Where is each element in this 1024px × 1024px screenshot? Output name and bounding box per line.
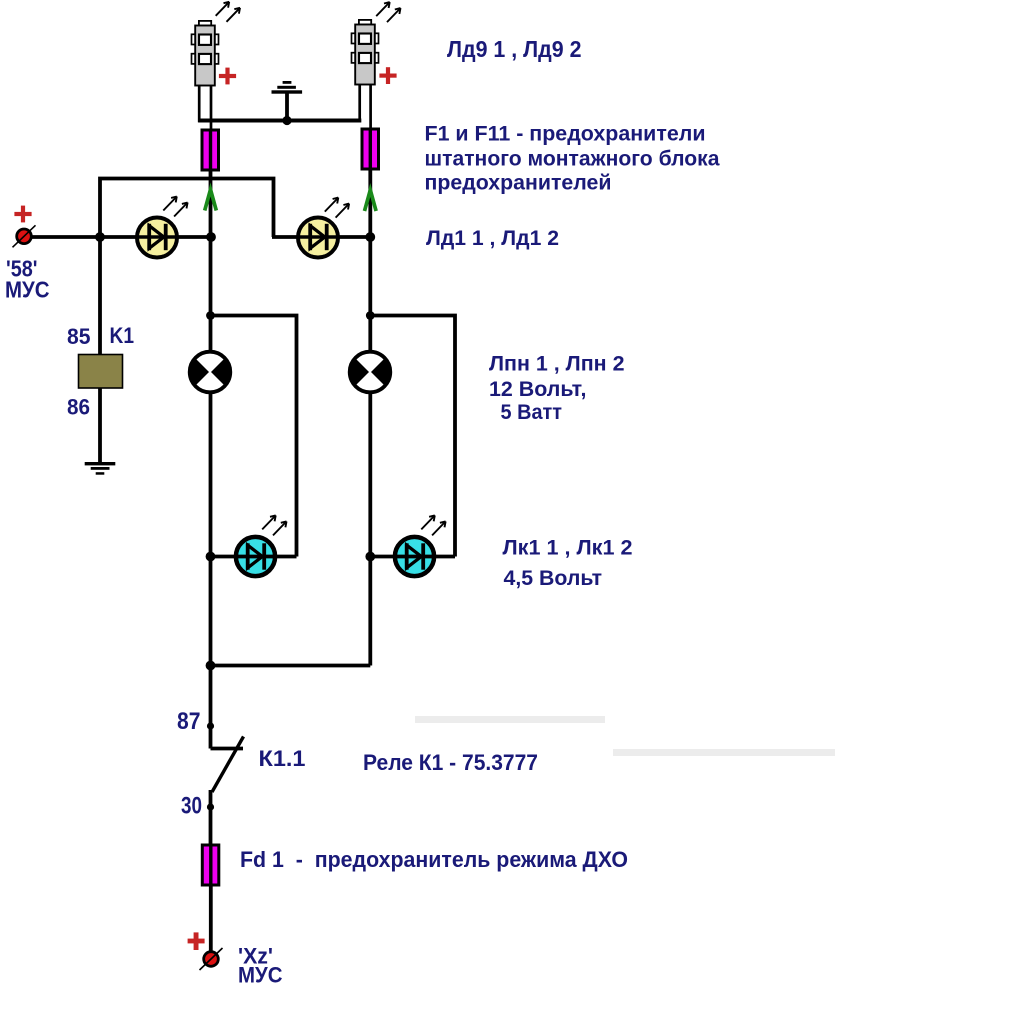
svg-text:5 Ватт: 5 Ватт xyxy=(501,400,563,424)
svg-text:Fd 1 - предохранитель режима: Fd 1 - предохранитель режима ДХО xyxy=(240,847,628,872)
svg-text:Лд1 1 , Лд1 2: Лд1 1 , Лд1 2 xyxy=(426,227,559,250)
svg-text:К1.1: К1.1 xyxy=(259,746,306,771)
svg-text:87: 87 xyxy=(177,708,201,735)
svg-text:K1: K1 xyxy=(110,323,135,348)
svg-text:Реле К1 - 75.3777: Реле К1 - 75.3777 xyxy=(363,750,538,775)
svg-text:предохранителей: предохранителей xyxy=(425,172,612,195)
svg-text:12 Вольт,: 12 Вольт, xyxy=(489,377,587,401)
svg-text:МУС: МУС xyxy=(238,963,283,988)
svg-text:Лк1 1 , Лк1 2: Лк1 1 , Лк1 2 xyxy=(503,536,633,560)
svg-text:86: 86 xyxy=(67,395,90,420)
svg-text:МУС: МУС xyxy=(5,277,50,303)
svg-text:F1 и F11 - предохранители: F1 и F11 - предохранители xyxy=(425,123,706,146)
svg-text:Лпн 1 , Лпн 2: Лпн 1 , Лпн 2 xyxy=(489,352,625,376)
svg-text:30: 30 xyxy=(181,793,202,820)
svg-text:85: 85 xyxy=(67,324,91,349)
svg-text:4,5 Вольт: 4,5 Вольт xyxy=(504,566,603,590)
svg-text:штатного монтажного блока: штатного монтажного блока xyxy=(425,148,720,171)
svg-text:Лд9 1 , Лд9 2: Лд9 1 , Лд9 2 xyxy=(447,36,582,62)
